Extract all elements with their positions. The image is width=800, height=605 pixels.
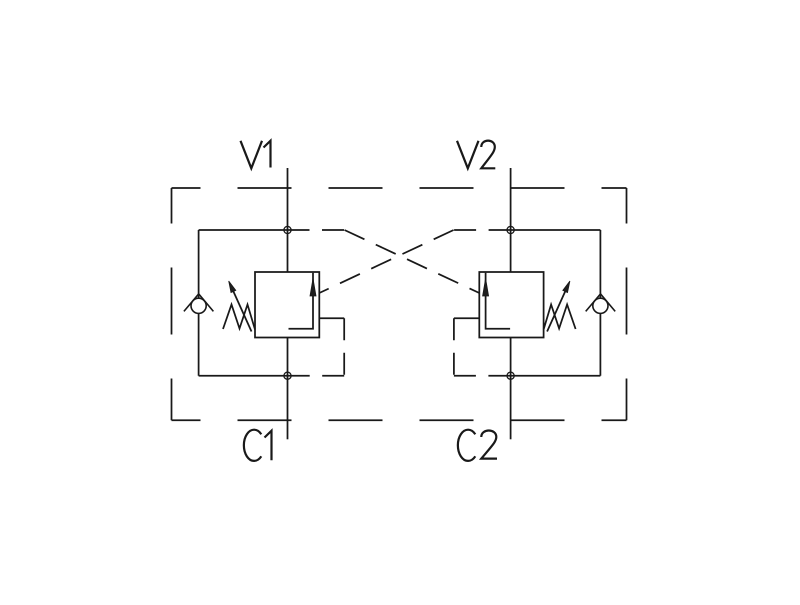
junction node C1 bottom — [284, 372, 291, 379]
RV2 adjustment arrow — [547, 281, 570, 332]
RV2 drain loop (left side) — [454, 318, 511, 375]
wire: V2 port vertical (top) — [510, 168, 512, 272]
junction node V1 top — [284, 226, 291, 233]
wire: check branch CV2 bottom horizontal — [511, 375, 601, 377]
wire: check branch CV1 vertical — [198, 230, 200, 376]
RV1 adjustment arrow — [229, 281, 252, 332]
port label C1 — [244, 430, 272, 461]
wire: check branch CV1 top horizontal — [199, 229, 288, 231]
RV1 drain loop (right side) — [288, 318, 345, 375]
port label V1 — [241, 141, 271, 169]
manifold boundary (dashed enclosure) — [172, 188, 627, 420]
wire: V1 valve lower vertical to C1 — [287, 338, 289, 440]
RV1 internal flow path with arrow — [289, 273, 317, 329]
port label C2 — [458, 430, 497, 461]
wire: V2 valve lower vertical to C2 — [510, 338, 512, 440]
pilot line from V2 node to RV1 — [319, 230, 510, 293]
wire: check branch CV2 top horizontal — [511, 229, 601, 231]
RV2 internal flow path with arrow — [483, 273, 511, 329]
wire: V1 port vertical (top) — [287, 168, 289, 272]
relief valve RV1 body — [255, 272, 319, 338]
relief valve RV2 body — [479, 272, 543, 338]
junction node C2 bottom — [507, 372, 514, 379]
junction node V2 top — [507, 226, 514, 233]
wire: check branch CV1 bottom horizontal — [199, 375, 288, 377]
RV2 spring — [544, 305, 576, 330]
RV1 spring — [223, 305, 255, 330]
port label V2 — [457, 141, 495, 169]
check valve CV1 (ball and seat) — [184, 294, 214, 314]
wire: check branch CV2 vertical — [599, 230, 601, 376]
check valve CV2 (ball and seat) — [586, 294, 616, 314]
pilot line from V1 node to RV2 — [288, 230, 480, 293]
